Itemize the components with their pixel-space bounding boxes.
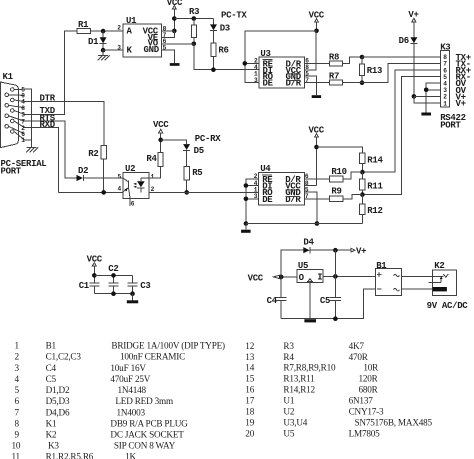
svg-text:PORT: PORT: [440, 121, 461, 131]
resistor R3: [189, 7, 199, 44]
wire U4 pin8 to VCC: [304, 185, 316, 187]
svg-text:9V AC/DC: 9V AC/DC: [427, 301, 469, 311]
wire VCC to R3 top: [174, 19, 213, 25]
IC U4 (SN75176B receiver): [259, 164, 305, 205]
wire K1 ground bus (pins 5,1): [25, 89, 32, 147]
svg-text:GND: GND: [144, 45, 160, 55]
svg-text:O: O: [299, 273, 305, 283]
node RXD: wire K1 pin2 down to U2 line: [25, 120, 59, 193]
wire U2 pin2 to U4 RO: [149, 191, 259, 193]
diode D6: [399, 36, 418, 96]
svg-text:470uF 25V: 470uF 25V: [110, 374, 150, 384]
diode D4: [303, 238, 351, 254]
svg-text:C5: C5: [320, 296, 330, 306]
svg-text:6N137: 6N137: [349, 396, 374, 406]
power VCC above U4: [309, 125, 325, 185]
svg-text:4K7: 4K7: [349, 341, 365, 351]
resistor R6: [211, 43, 229, 69]
svg-text:16: 16: [245, 385, 254, 395]
svg-text:R4: R4: [146, 154, 157, 164]
svg-text:DTR: DTR: [40, 94, 56, 104]
svg-text:1: 1: [443, 100, 447, 107]
capacitor C1: [79, 281, 100, 294]
wire U5 input to B1 +: [323, 275, 376, 277]
ground (bar, U1): [170, 63, 180, 66]
svg-text:R2: R2: [88, 149, 98, 159]
node RX+ wire K3 pin6 down to R14/R11 junction: [362, 70, 440, 172]
resistor R12: [360, 195, 383, 224]
svg-text:6: 6: [131, 201, 135, 208]
junction D1 anode: [101, 29, 106, 34]
ground (bar, U3): [312, 95, 321, 98]
svg-text:C4: C4: [46, 363, 57, 373]
resistor R8: [305, 52, 363, 66]
svg-text:2: 2: [15, 352, 20, 362]
svg-text:D5: D5: [194, 146, 204, 156]
IC U3 (SN75176B driver): [259, 49, 305, 89]
svg-text:D2: D2: [78, 166, 88, 176]
svg-text:10: 10: [12, 441, 21, 451]
svg-text:V+: V+: [356, 246, 366, 256]
junction C2 bottom: [111, 291, 116, 296]
K1 pin numbers 5 9 4 8 3 7 2 6 1: [21, 86, 25, 144]
svg-text:V+: V+: [456, 99, 466, 109]
svg-text:SIP CON 8 WAY: SIP CON 8 WAY: [114, 441, 176, 451]
diode D2: [77, 166, 123, 181]
junction D6 / K3 V+ pins: [412, 94, 417, 99]
ground rail wire: [246, 223, 363, 225]
transistor U2 (CNY17-3 optocoupler): [123, 164, 149, 198]
junction U1 pins 8,7: [172, 29, 177, 34]
svg-text:DB9 R/A PCB PLUG: DB9 R/A PCB PLUG: [110, 418, 188, 428]
node DTR: wire K1 pin4 to R2: [25, 94, 105, 146]
wire D4 junction down through C5 column: [334, 250, 336, 297]
node TXD: wire K1 pin3 up to R1: [25, 31, 78, 116]
capacitor C2: [108, 264, 118, 294]
junction C3 bottom: [130, 291, 135, 296]
svg-text:C2: C2: [108, 264, 118, 274]
power VCC above U3: [309, 11, 325, 31]
svg-text:BRIDGE 1A/100V (DIP TYPE): BRIDGE 1A/100V (DIP TYPE): [111, 341, 225, 351]
svg-text:5: 5: [15, 385, 20, 395]
svg-text:D6: D6: [399, 36, 409, 46]
svg-text:R12: R12: [367, 206, 382, 216]
power V+ above D6: [408, 10, 418, 38]
wire RXD line to U2 pin4: [58, 191, 122, 193]
svg-text:R11: R11: [367, 181, 383, 191]
LED D3 (PC-TX): [210, 24, 230, 44]
svg-text:R10: R10: [331, 167, 346, 177]
wire U3 pin5 to ground: [305, 76, 317, 95]
svg-text:K3: K3: [440, 43, 450, 53]
svg-text:R8: R8: [329, 52, 339, 62]
svg-text:K: K: [127, 46, 133, 56]
RS422 PORT label: [440, 113, 466, 131]
wire U5 output up to D4 anode: [281, 250, 303, 277]
ground (bar, K3): [421, 113, 431, 116]
svg-text:D5,D3: D5,D3: [46, 396, 70, 406]
ground (PC side, D1): [98, 50, 110, 60]
ground (bar, U5 common): [304, 283, 316, 323]
wire U1 pin5 to ground: [162, 50, 175, 63]
svg-text:C5: C5: [46, 374, 57, 384]
connector K1 body (DB9 PC-serial): [1, 82, 19, 148]
svg-text:R7: R7: [329, 71, 339, 81]
wire U1 pin6 (VO) to R3 bottom: [162, 43, 194, 45]
svg-text:17: 17: [245, 396, 254, 406]
U2 pin number 6 base stub: [130, 199, 135, 208]
node VCC output arrow of U5: [248, 273, 297, 283]
wire B1 to K2 (AC lines): [402, 276, 433, 289]
svg-text:1K: 1K: [125, 451, 136, 459]
parts list table right column: [245, 341, 432, 439]
wire U1 pin8 to VCC: [162, 30, 175, 32]
svg-text:VCC: VCC: [153, 120, 169, 130]
junction U3 RE: [243, 61, 248, 66]
ground (PC side, K1): [26, 147, 38, 152]
junction VCC / R14 branch: [314, 145, 319, 150]
svg-text:C4: C4: [267, 296, 278, 306]
svg-text:R4: R4: [283, 352, 294, 362]
svg-text:R3: R3: [189, 7, 199, 17]
junction R5 bottom: [184, 190, 189, 195]
junction C2 top: [111, 273, 116, 278]
junction K3 0V pins: [424, 88, 429, 93]
capacitor C3: [128, 281, 151, 294]
svg-text:2: 2: [117, 25, 121, 32]
resistor R9: [304, 187, 362, 202]
svg-text:PC-RX: PC-RX: [195, 134, 221, 144]
svg-text:120R: 120R: [359, 374, 379, 384]
svg-text:11: 11: [12, 451, 21, 459]
svg-text:3: 3: [15, 363, 20, 373]
svg-text:U2: U2: [125, 164, 135, 174]
svg-text:6: 6: [15, 396, 20, 406]
svg-text:U1: U1: [126, 16, 137, 26]
svg-text:R14,R12: R14,R12: [283, 385, 315, 395]
LED D5 (PC-RX): [161, 140, 204, 167]
svg-text:5: 5: [118, 173, 122, 180]
junction U5 output / D4 / C4: [279, 275, 284, 280]
ground (bar, C3): [127, 294, 138, 304]
op-amp U1 (6N137 optocoupler): [123, 16, 162, 57]
junction U4 DI: [244, 183, 249, 188]
resistor R11: [360, 172, 384, 195]
svg-text:K1: K1: [46, 418, 57, 428]
resistor R2: [88, 146, 106, 193]
diode D1: [88, 31, 107, 50]
svg-text:15: 15: [245, 374, 254, 384]
junction C5 bottom: [333, 316, 338, 321]
junction VCC / D5 branch: [158, 138, 163, 143]
junction VCC/R3 branch: [172, 16, 177, 21]
resistor R4: [146, 152, 163, 178]
wire VCC top rail of capacitor bank: [94, 275, 132, 283]
wire VCC to R14 top: [317, 147, 363, 153]
svg-text:100nF CERAMIC: 100nF CERAMIC: [120, 352, 185, 362]
regulator U5 (LM7805): [297, 261, 323, 283]
node RX- wire K3 pin5 down to R11/R12 junction: [362, 77, 440, 195]
junction U5 input / C5: [333, 274, 338, 279]
power V+ arrow: [351, 246, 366, 256]
svg-text:SN75176B, MAX485: SN75176B, MAX485: [355, 418, 433, 428]
node TX- wire R13 bottom to K3 pin7: [362, 63, 440, 82]
svg-text:1N4003: 1N4003: [117, 407, 146, 417]
svg-text:PORT: PORT: [1, 167, 22, 177]
svg-text:R13: R13: [367, 66, 382, 76]
junction R14/R11/R10 (RX+): [360, 170, 365, 175]
svg-text:13: 13: [245, 352, 254, 362]
svg-text:1: 1: [21, 137, 25, 144]
wire U1 pin7 to VCC: [162, 31, 175, 37]
bridge rectifier B1: [376, 261, 402, 295]
wire U3 pin8 VCC: [305, 31, 317, 70]
svg-text:R5: R5: [192, 168, 202, 178]
svg-text:9: 9: [15, 430, 20, 440]
power VCC above C1: [87, 254, 103, 283]
power VCC above U1: [167, 0, 183, 31]
resistor R10: [304, 167, 362, 182]
svg-text:1: 1: [151, 173, 155, 180]
connector K2 (DC jack socket): [429, 261, 457, 296]
svg-text:B1: B1: [376, 261, 387, 271]
svg-text:680R: 680R: [359, 385, 379, 395]
svg-text:10uF 16V: 10uF 16V: [110, 363, 146, 373]
wire V+ to K3 pins 2,1: [414, 96, 441, 103]
parts list table left column: [12, 341, 226, 459]
svg-text:U1: U1: [283, 396, 294, 406]
svg-text:8: 8: [15, 418, 20, 428]
connector K3 (RS422 port): [440, 43, 450, 107]
svg-text:4: 4: [118, 186, 122, 193]
junction R2 bottom: [101, 190, 106, 195]
svg-text:1N4148: 1N4148: [118, 385, 147, 395]
wire bottom rail of capacitor bank: [94, 293, 132, 295]
svg-text:C1,C2,C3: C1,C2,C3: [46, 352, 82, 362]
svg-text:14: 14: [245, 363, 254, 373]
wire PSU bottom rail: [281, 289, 376, 319]
junction C1 top: [92, 273, 97, 278]
svg-text:1: 1: [15, 341, 20, 351]
svg-text:U5: U5: [298, 261, 308, 271]
svg-text:10R: 10R: [363, 363, 379, 373]
junction D1 cathode: [101, 48, 106, 53]
resistor R13: [360, 57, 383, 83]
wire R1 to U1 pin2: [91, 30, 124, 32]
svg-text:D4: D4: [303, 238, 314, 248]
junction D4 cathode / V+: [333, 248, 338, 253]
svg-text:19: 19: [245, 418, 254, 428]
wire U3 RE/DE tie to VCC: [245, 31, 317, 83]
resistor R5: [184, 167, 202, 193]
wire D1 to U1 pin3: [103, 49, 123, 51]
wire U4 RE/DI/DE tie to ground rail: [246, 179, 259, 224]
svg-text:D1,D2: D1,D2: [46, 385, 70, 395]
junction R6 bottom: [211, 67, 216, 72]
svg-text:DC JACK SOCKET: DC JACK SOCKET: [110, 430, 184, 440]
svg-text:U3: U3: [260, 49, 270, 59]
svg-text:470R: 470R: [349, 352, 369, 362]
svg-text:4: 4: [15, 374, 20, 384]
K1 pin stubs: [9, 89, 25, 140]
wire K3 pins 4,3 to ground: [426, 83, 440, 112]
power VCC above R4: [153, 120, 169, 152]
svg-text:DE: DE: [262, 195, 273, 205]
svg-text:U5: U5: [283, 428, 294, 438]
svg-text:PC-TX: PC-TX: [221, 10, 247, 20]
svg-text:C1: C1: [79, 281, 90, 291]
svg-text:DE: DE: [263, 79, 274, 89]
svg-text:3: 3: [117, 44, 121, 51]
svg-text:R9: R9: [331, 187, 341, 197]
ground (bar, U4): [241, 224, 251, 233]
wire R3/R6 bottoms to U3 DI: [194, 44, 259, 70]
svg-text:VCC: VCC: [248, 273, 264, 283]
svg-text:U4: U4: [260, 164, 271, 174]
svg-text:7: 7: [15, 407, 20, 417]
svg-text:R6: R6: [218, 45, 228, 55]
svg-text:12: 12: [245, 341, 254, 351]
svg-text:D1: D1: [88, 37, 99, 47]
svg-text:A: A: [127, 27, 133, 37]
svg-text:K3: K3: [48, 441, 59, 451]
svg-text:CNY17-3: CNY17-3: [349, 407, 384, 417]
junction R13 bottom: [360, 80, 365, 85]
junction R11/R12/R9 (RX-): [360, 192, 365, 197]
svg-text:R1: R1: [78, 20, 89, 30]
capacitor C4: [267, 277, 287, 319]
svg-text:R13,R11: R13,R11: [283, 374, 315, 384]
junction ground rail at U4: [315, 221, 320, 226]
wire U4 pin5 GND down to ground rail: [304, 192, 317, 223]
svg-text:D3: D3: [220, 24, 230, 34]
resistor R7: [305, 71, 363, 85]
svg-text:D4,D6: D4,D6: [46, 407, 70, 417]
junction VCC / U3 RE-DE tie: [314, 29, 319, 34]
svg-text:LED RED 3mm: LED RED 3mm: [115, 396, 173, 406]
PC-SERIAL PORT label: [1, 159, 47, 177]
resistor R1: [77, 20, 91, 34]
svg-text:U3,U4: U3,U4: [283, 418, 307, 428]
svg-text:I: I: [317, 273, 322, 283]
svg-text:LM7805: LM7805: [349, 428, 381, 438]
junction R13 top: [360, 55, 365, 60]
svg-text:R3: R3: [283, 341, 294, 351]
svg-text:R1,R2,R5,R6: R1,R2,R5,R6: [46, 451, 94, 459]
svg-text:RXD: RXD: [40, 120, 56, 130]
svg-text:C3: C3: [140, 281, 150, 291]
svg-text:B1: B1: [46, 341, 57, 351]
node TX+ wire to K3 pin8: [362, 56, 440, 58]
node RTS: wire K1 pin7 down to D2: [25, 113, 77, 178]
capacitor C5: [320, 296, 341, 319]
svg-text:U2: U2: [283, 407, 294, 417]
junction U4 DE: [244, 197, 249, 202]
resistor R14: [360, 153, 384, 172]
svg-text:K2: K2: [434, 261, 444, 271]
svg-text:R7,R8,R9,R10: R7,R8,R9,R10: [283, 363, 336, 373]
svg-text:K1: K1: [3, 72, 14, 82]
svg-text:20: 20: [245, 428, 254, 438]
junction ground rail left: [244, 221, 249, 226]
svg-text:18: 18: [245, 407, 254, 417]
svg-text:K2: K2: [46, 430, 57, 440]
svg-text:R14: R14: [367, 156, 383, 166]
junction R3 bottom / U1 VO: [192, 42, 197, 47]
junction R3 top: [192, 16, 197, 21]
